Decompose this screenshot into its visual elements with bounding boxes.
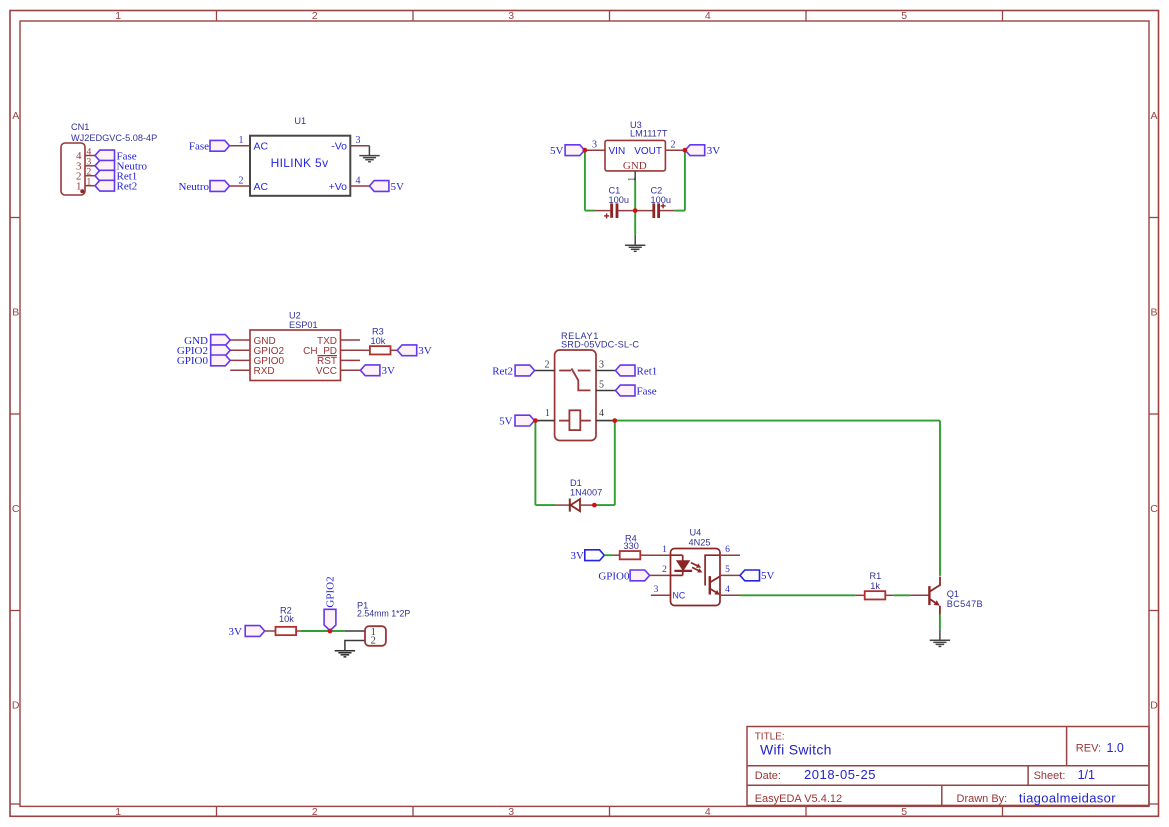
svg-text:4N25: 4N25 bbox=[689, 537, 711, 547]
svg-text:tiagoalmeidasor: tiagoalmeidasor bbox=[1019, 790, 1116, 805]
net flag Ret1 (CN1 pin 2) bbox=[95, 170, 115, 181]
ground symbol below C1/C2 bbox=[625, 235, 645, 252]
U4 pin 3 stub wire bbox=[651, 594, 671, 596]
wire D1 anode-side bbox=[535, 504, 555, 506]
optocoupler U4 4N25 bbox=[671, 549, 721, 606]
svg-text:1: 1 bbox=[115, 806, 121, 818]
svg-text:Drawn By:: Drawn By: bbox=[957, 793, 1008, 805]
net flag GND (U2) bbox=[211, 335, 231, 346]
svg-text:VCC: VCC bbox=[316, 366, 337, 377]
svg-text:5: 5 bbox=[725, 565, 730, 575]
svg-text:4: 4 bbox=[87, 147, 92, 157]
U4 pin 6 stub wire bbox=[720, 554, 740, 556]
svg-text:EasyEDA V5.4.12: EasyEDA V5.4.12 bbox=[755, 793, 842, 805]
svg-text:GPIO2: GPIO2 bbox=[324, 576, 336, 607]
capacitor C1 100u bbox=[595, 203, 636, 218]
net flag GPIO0 (U4 pin 2) bbox=[630, 570, 650, 581]
P1 pin 2 wire bbox=[345, 641, 365, 651]
svg-text:1k: 1k bbox=[870, 581, 880, 591]
svg-text:-Vo: -Vo bbox=[331, 141, 347, 153]
ground symbol at U1 pin 3 bbox=[359, 146, 379, 162]
svg-text:LM1117T: LM1117T bbox=[630, 129, 668, 139]
diode D1 1N4007 bbox=[555, 499, 594, 512]
wire C1 left lead net bbox=[585, 210, 595, 212]
svg-text:Ret1: Ret1 bbox=[637, 365, 658, 377]
resistor R3 bbox=[362, 346, 397, 354]
module U2 ESP01 bbox=[250, 330, 341, 381]
junction GPIO2 node bbox=[328, 629, 333, 634]
connector P1 2.54mm 1*2P bbox=[365, 626, 386, 646]
svg-text:1: 1 bbox=[76, 180, 82, 192]
svg-text:5V: 5V bbox=[761, 570, 775, 582]
junction at U3 VOUT bbox=[683, 148, 688, 153]
svg-text:4: 4 bbox=[599, 408, 604, 419]
U1 pin 1 wire (AC) bbox=[230, 145, 251, 147]
svg-text:3: 3 bbox=[654, 585, 659, 595]
svg-text:GPIO0: GPIO0 bbox=[177, 355, 209, 367]
U1 pin names bbox=[254, 141, 348, 193]
svg-text:1: 1 bbox=[545, 408, 550, 419]
svg-text:A: A bbox=[1150, 110, 1157, 122]
net flag Neutro (CN1 pin 3) bbox=[95, 160, 115, 171]
svg-text:GPIO0: GPIO0 bbox=[598, 570, 630, 582]
U1 pin 2 wire (AC) bbox=[230, 185, 251, 187]
svg-text:2: 2 bbox=[371, 636, 376, 647]
wire GPIO2 node to P1 bbox=[330, 630, 345, 632]
svg-text:4: 4 bbox=[705, 10, 711, 22]
resistor R2 bbox=[265, 627, 301, 635]
svg-text:A: A bbox=[12, 110, 19, 122]
svg-text:Q1: Q1 bbox=[947, 589, 959, 599]
svg-text:Ret2: Ret2 bbox=[492, 365, 513, 377]
svg-text:1N4007: 1N4007 bbox=[570, 487, 602, 497]
U2 pin wires right bbox=[341, 340, 363, 370]
module U1 HILINK 5v bbox=[250, 136, 350, 196]
svg-text:AC: AC bbox=[254, 141, 269, 153]
svg-text:ESP01: ESP01 bbox=[289, 320, 318, 330]
svg-text:5: 5 bbox=[901, 806, 907, 818]
net flag 3V (U2 VCC) bbox=[360, 365, 380, 376]
ground symbol at Q1 emitter bbox=[930, 630, 950, 647]
svg-text:4: 4 bbox=[356, 175, 361, 186]
svg-text:2: 2 bbox=[87, 168, 92, 178]
U1 pin 3 wire (-Vo) bbox=[350, 145, 369, 147]
svg-text:3: 3 bbox=[592, 140, 597, 151]
wire D1 cathode to relay pin4 net bbox=[594, 504, 614, 506]
svg-text:REV:: REV: bbox=[1076, 743, 1101, 755]
RELAY1 pin 5 wire bbox=[596, 390, 616, 392]
svg-text:1.0: 1.0 bbox=[1107, 741, 1124, 755]
U3 GND pin stub bbox=[634, 171, 636, 181]
svg-text:2: 2 bbox=[239, 175, 244, 186]
svg-text:AC: AC bbox=[254, 181, 269, 193]
net flag 5V (U1 pin 4) bbox=[369, 181, 389, 192]
svg-text:SRD-05VDC-SL-C: SRD-05VDC-SL-C bbox=[561, 339, 639, 349]
svg-text:100u: 100u bbox=[651, 195, 671, 205]
svg-text:2: 2 bbox=[312, 10, 318, 22]
svg-text:2.54mm 1*2P: 2.54mm 1*2P bbox=[357, 608, 410, 618]
svg-text:2: 2 bbox=[671, 140, 676, 151]
wire C2 right lead net bbox=[674, 210, 685, 212]
U4 pin numbers bbox=[654, 545, 731, 595]
svg-text:GND: GND bbox=[623, 160, 647, 172]
wire R4 to U4 pin 1 bbox=[650, 554, 671, 556]
svg-text:Ret2: Ret2 bbox=[117, 181, 138, 193]
svg-text:5: 5 bbox=[901, 10, 907, 22]
svg-text:3: 3 bbox=[508, 806, 514, 818]
svg-text:1: 1 bbox=[87, 178, 92, 188]
svg-text:RXD: RXD bbox=[254, 366, 275, 377]
U4 pin 4 wire bbox=[720, 594, 741, 596]
net flag 3V (U3 VOUT) bbox=[685, 145, 705, 156]
svg-text:1: 1 bbox=[115, 10, 121, 22]
RELAY1 pin 2 wire bbox=[535, 370, 555, 372]
RELAY1 pin numbers bbox=[545, 359, 605, 419]
U2 pin wires left bbox=[230, 340, 250, 370]
svg-text:HILINK 5v: HILINK 5v bbox=[271, 156, 329, 170]
wire 3V to R4 bbox=[604, 554, 612, 556]
svg-text:3: 3 bbox=[508, 10, 514, 22]
svg-text:2: 2 bbox=[545, 359, 550, 370]
svg-text:Wifi Switch: Wifi Switch bbox=[760, 742, 832, 758]
svg-text:330: 330 bbox=[624, 541, 639, 551]
U1 pin 4 wire (+Vo) bbox=[350, 185, 369, 187]
wire 3V down to C2 bbox=[684, 150, 686, 210]
net flag Ret1 (relay pin 3) bbox=[616, 365, 636, 376]
net flag GPIO2 (U2) bbox=[211, 345, 231, 356]
wire relay pin4 down to D1 bbox=[614, 421, 616, 506]
svg-text:B: B bbox=[1150, 307, 1157, 319]
svg-text:3: 3 bbox=[599, 359, 604, 370]
U3 pin 2 wire (VOUT) bbox=[665, 149, 685, 151]
svg-text:R1: R1 bbox=[870, 571, 882, 581]
P1 pin 1 wire bbox=[345, 630, 365, 632]
svg-text:BC547B: BC547B bbox=[947, 599, 983, 609]
svg-text:3V: 3V bbox=[229, 626, 243, 638]
title block bbox=[747, 727, 1149, 806]
U1 pin numbers bbox=[239, 135, 361, 186]
net flag 5V (relay pin 1) bbox=[515, 415, 535, 426]
wire R2 to GPIO2 node bbox=[301, 630, 330, 632]
regulator U3 LM1117T bbox=[605, 140, 665, 171]
net flag Fase (U1 pin 1) bbox=[210, 140, 230, 151]
capacitor C2 100u bbox=[635, 203, 674, 218]
svg-text:3V: 3V bbox=[707, 145, 721, 157]
svg-text:Date:: Date: bbox=[755, 770, 781, 782]
junction relay pin 1 bbox=[533, 418, 538, 423]
net flag Fase (relay pin 5) bbox=[616, 385, 636, 396]
svg-text:VIN: VIN bbox=[609, 146, 626, 157]
wire U3 GND down bbox=[634, 181, 636, 235]
svg-text:Fase: Fase bbox=[189, 141, 209, 153]
junction relay pin 4 bbox=[612, 418, 617, 423]
net flag GPIO0 (U2) bbox=[211, 355, 231, 366]
net flag Ret2 (relay pin 2) bbox=[515, 365, 535, 376]
svg-text:3V: 3V bbox=[571, 550, 585, 562]
resistor R1 bbox=[855, 591, 894, 599]
svg-text:6: 6 bbox=[725, 545, 730, 555]
net flag 3V (R2) bbox=[245, 626, 265, 637]
svg-text:U4: U4 bbox=[690, 528, 702, 538]
svg-text:1: 1 bbox=[662, 545, 667, 555]
svg-text:5V: 5V bbox=[499, 415, 513, 427]
svg-text:D: D bbox=[12, 699, 20, 711]
wire U4 pin 4 to R1 bbox=[741, 594, 856, 596]
svg-text:4: 4 bbox=[725, 585, 730, 595]
RELAY1 pin 1 wire bbox=[535, 420, 554, 422]
svg-text:1: 1 bbox=[239, 135, 244, 146]
svg-text:10k: 10k bbox=[371, 336, 386, 346]
svg-text:3: 3 bbox=[87, 158, 92, 168]
svg-text:WJ2EDGVC-5.08-4P: WJ2EDGVC-5.08-4P bbox=[71, 133, 157, 143]
svg-text:5: 5 bbox=[599, 379, 604, 390]
svg-text:NC: NC bbox=[673, 591, 686, 601]
net flag Neutro (U1 pin 2) bbox=[210, 181, 230, 192]
svg-text:2: 2 bbox=[312, 806, 318, 818]
svg-text:Sheet:: Sheet: bbox=[1034, 770, 1066, 782]
net flag 3V (R4) bbox=[585, 550, 605, 561]
svg-text:VOUT: VOUT bbox=[634, 146, 662, 157]
wire Q1 emitter to ground bbox=[939, 615, 941, 630]
CN1 pin numbers 4 3 2 1 bbox=[87, 147, 92, 187]
svg-text:100u: 100u bbox=[609, 195, 629, 205]
svg-text:B: B bbox=[12, 307, 19, 319]
svg-text:C: C bbox=[1150, 503, 1158, 515]
wire R1 to Q1 base bbox=[894, 594, 910, 596]
svg-text:1/1: 1/1 bbox=[1078, 768, 1095, 782]
net flag 3V (R3) bbox=[397, 345, 417, 356]
svg-text:CN1: CN1 bbox=[71, 122, 89, 132]
U4 pin 5 wire bbox=[720, 574, 740, 576]
transistor Q1 BC547B bbox=[910, 577, 940, 615]
wire 5V down to C1 bbox=[584, 150, 586, 210]
wire GPIO0 to U4 pin 2 bbox=[650, 574, 671, 576]
svg-text:Fase: Fase bbox=[637, 385, 657, 397]
ground symbol at P1 pin 2 bbox=[335, 650, 355, 652]
svg-text:C: C bbox=[12, 503, 20, 515]
junction D1 cathode bbox=[592, 503, 597, 508]
junction between C1 and C2 bbox=[633, 208, 638, 213]
svg-text:Neutro: Neutro bbox=[178, 181, 209, 193]
svg-text:2018-05-25: 2018-05-25 bbox=[804, 767, 876, 782]
svg-text:D: D bbox=[1150, 699, 1158, 711]
svg-text:3: 3 bbox=[356, 135, 361, 146]
svg-text:2: 2 bbox=[662, 565, 667, 575]
relay RELAY1 SRD-05VDC-SL-C bbox=[555, 350, 596, 441]
svg-text:U2: U2 bbox=[289, 311, 301, 321]
svg-text:+Vo: +Vo bbox=[329, 181, 348, 193]
RELAY1 pin 3 wire bbox=[596, 370, 616, 372]
net flag Ret2 (CN1 pin 1) bbox=[95, 180, 115, 191]
net flag 5V (U3 VIN) bbox=[565, 145, 585, 156]
CN1 pin names 4 3 2 1 bbox=[76, 150, 82, 192]
svg-text:4: 4 bbox=[705, 806, 711, 818]
wire relay pin4 to Q1 collector bbox=[615, 420, 940, 422]
wire 5V node down to D1 bbox=[534, 421, 536, 506]
RELAY1 pin 4 wire bbox=[596, 420, 615, 422]
svg-text:3V: 3V bbox=[418, 345, 432, 357]
U3 pin 3 wire (VIN) bbox=[585, 149, 605, 151]
net flag 5V (U4 pin 5) bbox=[740, 570, 760, 581]
svg-text:U1: U1 bbox=[294, 116, 306, 126]
U3 pin numbers bbox=[592, 140, 676, 151]
connector CN1 WJ2EDGVC-5.08-4P bbox=[61, 143, 95, 195]
svg-text:3V: 3V bbox=[382, 365, 396, 377]
svg-text:10k: 10k bbox=[279, 614, 294, 624]
net flag Fase (CN1 pin 4) bbox=[95, 150, 115, 161]
resistor R4 bbox=[613, 551, 650, 559]
junction at U3 VIN bbox=[583, 148, 588, 153]
svg-text:5V: 5V bbox=[550, 145, 564, 157]
net flag GPIO2 (vertical) bbox=[324, 609, 336, 630]
svg-text:5V: 5V bbox=[391, 181, 405, 193]
